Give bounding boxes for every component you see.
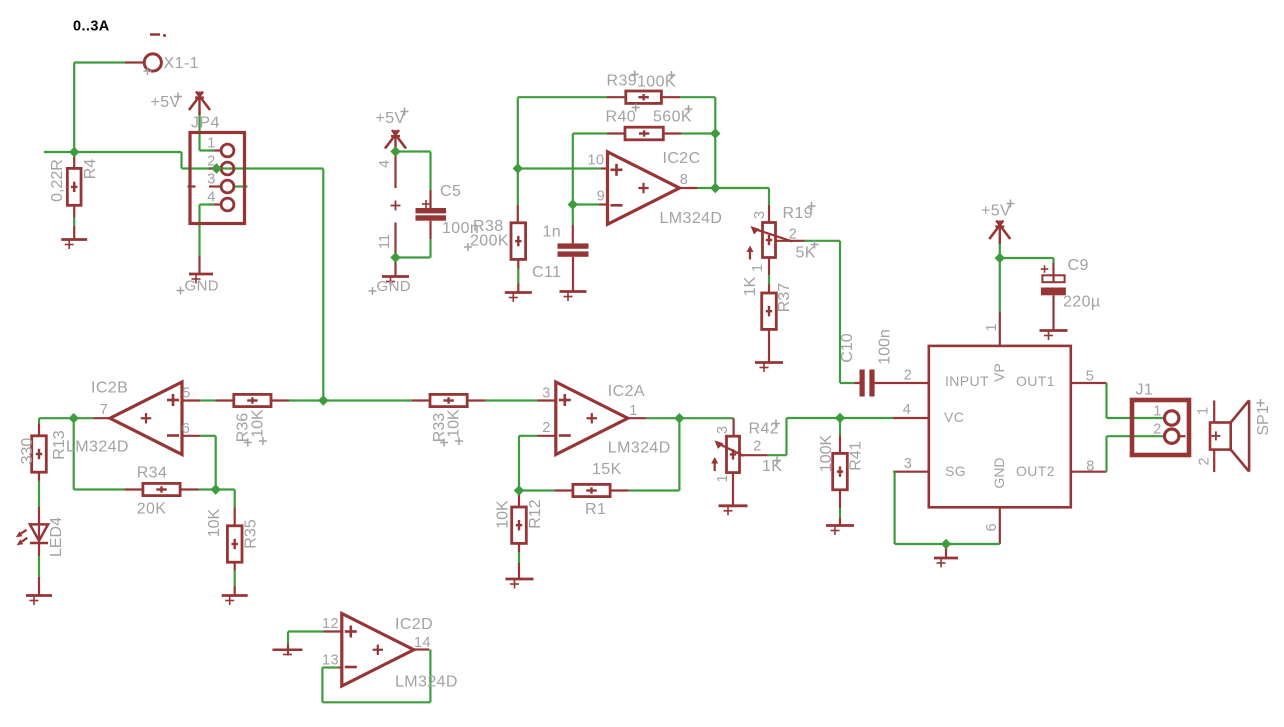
svg-text:560K: 560K bbox=[653, 109, 692, 126]
svg-text:R19: R19 bbox=[783, 205, 814, 222]
svg-text:R34: R34 bbox=[137, 465, 168, 482]
svg-text:2: 2 bbox=[1153, 422, 1161, 438]
svg-text:10: 10 bbox=[588, 153, 605, 169]
svg-text:100n: 100n bbox=[877, 329, 894, 365]
svg-text:9: 9 bbox=[597, 189, 605, 205]
svg-text:IC2D: IC2D bbox=[395, 616, 433, 633]
svg-text:+5V: +5V bbox=[981, 203, 1011, 220]
svg-text:R35: R35 bbox=[243, 519, 260, 548]
svg-text:1: 1 bbox=[629, 403, 637, 419]
svg-text:10K: 10K bbox=[206, 508, 223, 537]
svg-text:OUT2: OUT2 bbox=[1016, 463, 1055, 479]
svg-text:R12: R12 bbox=[527, 499, 544, 528]
svg-text:IC2B: IC2B bbox=[91, 380, 128, 397]
svg-text:2: 2 bbox=[1197, 457, 1213, 465]
svg-text:10K: 10K bbox=[495, 500, 512, 529]
svg-text:JP4: JP4 bbox=[191, 115, 220, 132]
svg-text:1n: 1n bbox=[543, 224, 562, 241]
svg-text:8: 8 bbox=[1086, 459, 1094, 475]
svg-text:13: 13 bbox=[322, 653, 339, 669]
svg-text:INPUT: INPUT bbox=[945, 373, 989, 389]
svg-text:2: 2 bbox=[753, 439, 761, 455]
svg-text:2: 2 bbox=[789, 227, 797, 243]
svg-text:330: 330 bbox=[19, 438, 36, 465]
svg-text:4: 4 bbox=[377, 160, 393, 168]
svg-text:5: 5 bbox=[1086, 369, 1094, 385]
svg-text:10K: 10K bbox=[446, 409, 463, 438]
svg-text:14: 14 bbox=[414, 635, 431, 651]
svg-text:C10: C10 bbox=[839, 333, 856, 362]
svg-text:3: 3 bbox=[207, 172, 215, 188]
svg-text:1: 1 bbox=[984, 323, 1000, 331]
svg-text:SG: SG bbox=[945, 463, 966, 479]
svg-text:SP1: SP1 bbox=[1255, 405, 1272, 435]
svg-text:20K: 20K bbox=[137, 501, 167, 518]
svg-text:200K: 200K bbox=[470, 233, 509, 250]
svg-text:0..3A: 0..3A bbox=[73, 19, 110, 35]
svg-text:GND: GND bbox=[377, 278, 412, 295]
svg-text:+5V: +5V bbox=[376, 110, 406, 127]
svg-text:11: 11 bbox=[377, 234, 393, 249]
svg-text:6: 6 bbox=[984, 523, 1000, 531]
svg-text:VP: VP bbox=[991, 363, 1007, 382]
svg-text:1: 1 bbox=[715, 474, 731, 482]
svg-text:IC2A: IC2A bbox=[608, 383, 645, 400]
svg-text:2: 2 bbox=[542, 420, 550, 436]
svg-text:1: 1 bbox=[750, 264, 766, 272]
svg-text:100K: 100K bbox=[637, 74, 676, 91]
svg-text:4: 4 bbox=[903, 402, 911, 418]
svg-text:3: 3 bbox=[542, 386, 550, 402]
svg-text:VC: VC bbox=[944, 409, 964, 425]
svg-text:OUT1: OUT1 bbox=[1016, 373, 1055, 389]
svg-text:12: 12 bbox=[322, 616, 339, 632]
svg-text:1: 1 bbox=[207, 136, 215, 152]
svg-text:5K: 5K bbox=[796, 245, 816, 262]
svg-text:7: 7 bbox=[100, 402, 108, 418]
svg-text:R37: R37 bbox=[776, 283, 793, 312]
svg-text:1K: 1K bbox=[742, 276, 759, 296]
svg-text:R40: R40 bbox=[606, 109, 637, 126]
svg-text:100K: 100K bbox=[818, 434, 835, 472]
svg-text:1: 1 bbox=[1196, 407, 1212, 415]
svg-text:X1-1: X1-1 bbox=[164, 55, 199, 72]
svg-text:LM324D: LM324D bbox=[608, 440, 671, 457]
svg-text:3: 3 bbox=[904, 456, 912, 472]
svg-text:R1: R1 bbox=[585, 501, 606, 518]
svg-text:4: 4 bbox=[207, 190, 215, 206]
svg-text:C11: C11 bbox=[532, 264, 561, 281]
svg-text:3: 3 bbox=[715, 426, 731, 434]
svg-text:220µ: 220µ bbox=[1063, 294, 1101, 311]
svg-text:GND: GND bbox=[991, 457, 1007, 488]
svg-text:5: 5 bbox=[182, 386, 190, 402]
svg-text:C5: C5 bbox=[440, 183, 461, 200]
svg-text:LM324D: LM324D bbox=[395, 674, 458, 691]
svg-text:GND: GND bbox=[185, 278, 220, 295]
svg-text:3: 3 bbox=[752, 211, 768, 219]
svg-text:LED4: LED4 bbox=[48, 517, 65, 557]
svg-text:1: 1 bbox=[1153, 404, 1161, 420]
svg-text:J1: J1 bbox=[1136, 382, 1154, 399]
svg-text:IC2C: IC2C bbox=[663, 150, 701, 167]
svg-text:6: 6 bbox=[182, 421, 190, 437]
svg-text:C9: C9 bbox=[1068, 257, 1089, 274]
svg-text:0,22R: 0,22R bbox=[49, 159, 66, 202]
svg-text:LM324D: LM324D bbox=[66, 439, 129, 456]
svg-text:2: 2 bbox=[207, 154, 215, 170]
svg-text:R4: R4 bbox=[82, 159, 99, 180]
svg-text:2: 2 bbox=[904, 368, 912, 384]
svg-text:LM324D: LM324D bbox=[660, 210, 723, 227]
svg-text:8: 8 bbox=[680, 172, 688, 188]
svg-text:R13: R13 bbox=[51, 430, 68, 459]
svg-text:15K: 15K bbox=[592, 461, 622, 478]
svg-text:10K: 10K bbox=[250, 409, 267, 438]
svg-text:R41: R41 bbox=[848, 441, 865, 470]
